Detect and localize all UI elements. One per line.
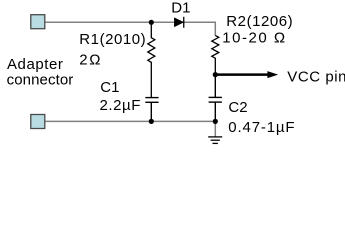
node junction at bottom rail / C1 — [149, 119, 154, 124]
wire bottom rail from adapter pin to C2 node — [45, 120, 215, 122]
wire from bottom node down to ground — [214, 121, 216, 136]
svg-text:VCC pin: VCC pin — [287, 68, 345, 85]
svg-text:10-20 Ω: 10-20 Ω — [222, 30, 286, 47]
capacitor C1 — [145, 98, 158, 122]
adapter connector pin top — [31, 15, 45, 29]
VCC pin arrow — [215, 71, 278, 78]
resistor R2 — [212, 35, 219, 74]
adapter connector pin bottom — [31, 115, 45, 129]
svg-text:C1: C1 — [100, 79, 119, 96]
svg-text:R1(2010): R1(2010) — [79, 31, 146, 48]
svg-text:R2(1206): R2(1206) — [226, 13, 293, 30]
ground — [208, 137, 222, 144]
svg-text:D1: D1 — [171, 0, 190, 16]
node junction at R2 / VCC — [213, 72, 218, 77]
svg-text:0.47-1µF: 0.47-1µF — [228, 119, 295, 136]
diode D1 — [174, 17, 183, 28]
svg-text:2.2µF: 2.2µF — [100, 97, 141, 114]
svg-text:2Ω: 2Ω — [79, 52, 102, 69]
node junction at top rail / R1 — [149, 20, 154, 25]
resistor R1 — [148, 22, 155, 97]
node junction at bottom rail / C2 / ground — [213, 119, 218, 124]
capacitor C2 — [209, 75, 222, 122]
svg-text:connector: connector — [7, 72, 74, 89]
wire top rail from adapter pin to R2 column — [45, 22, 215, 35]
svg-text:C2: C2 — [228, 99, 247, 116]
